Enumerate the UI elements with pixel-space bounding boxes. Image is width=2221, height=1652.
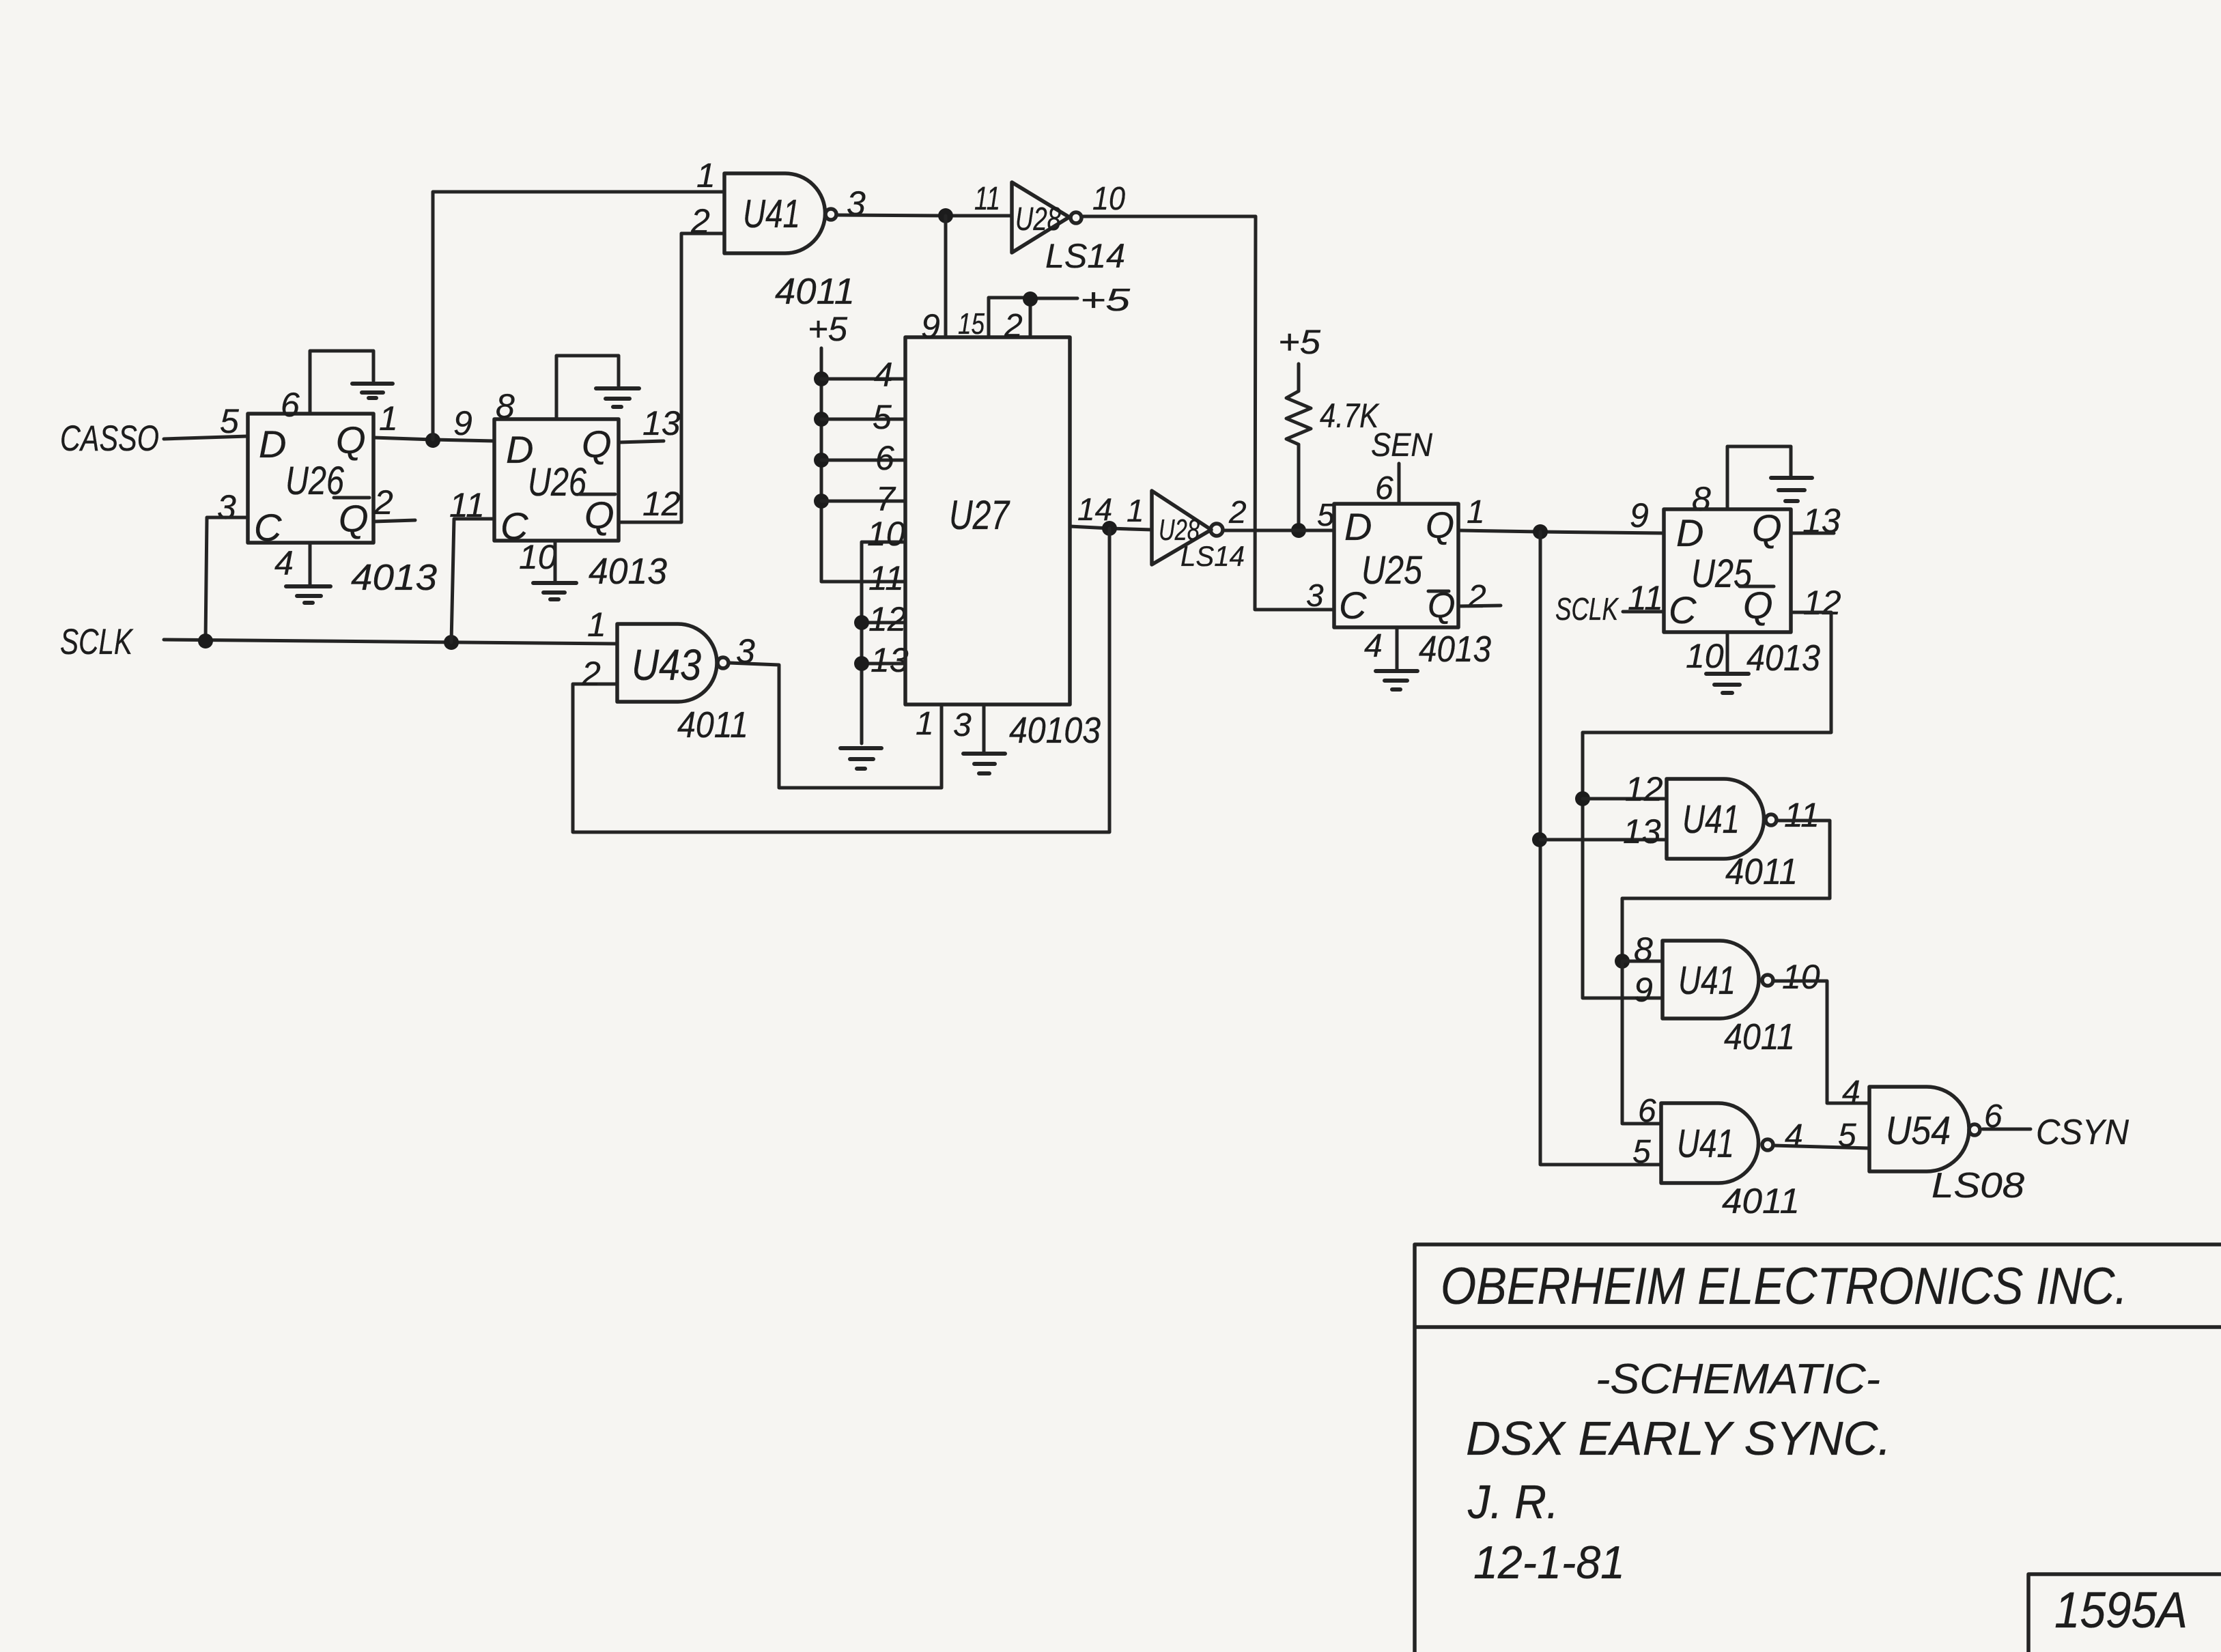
junction U41a out node — [938, 208, 953, 223]
bubble U28b output — [1211, 524, 1223, 536]
wire CASSO to U26a pin 5 — [164, 436, 248, 439]
svg-text:4011: 4011 — [775, 271, 855, 312]
svg-text:40103: 40103 — [1009, 710, 1101, 751]
wire U26b pin 8 to ground — [556, 356, 619, 419]
junction +5 tie — [1023, 291, 1038, 307]
junction bus at pin 5 — [814, 412, 829, 427]
wire U27 pin 1 bottom to U43 output — [729, 663, 942, 788]
wire U27 pin 5 — [821, 418, 905, 421]
svg-text:10: 10 — [1782, 958, 1820, 996]
svg-text:2: 2 — [373, 483, 393, 522]
wire U41b pin 13 input — [1540, 838, 1667, 842]
wire U26a pin 6 to ground — [310, 351, 373, 414]
wire U25b Qbar pin 12 around to gates — [1583, 612, 1831, 998]
bubble U41c output — [1762, 975, 1773, 986]
wire U27 pins 15-2 tie to +5 — [989, 298, 1077, 337]
svg-text:4: 4 — [274, 544, 294, 582]
junction resistor to D wire — [1291, 523, 1306, 538]
wire U41b pin 12 input — [1583, 797, 1667, 801]
and gate U54 — [1869, 1087, 1969, 1171]
inverter U28 (a) — [1012, 182, 1069, 253]
ground (U25b pin 10) — [1706, 674, 1749, 693]
svg-text:U41: U41 — [1682, 797, 1740, 842]
wire U27 pin 12 — [862, 621, 905, 625]
svg-text:13: 13 — [642, 404, 681, 442]
svg-text:U54: U54 — [1886, 1109, 1951, 1153]
svg-text:-SCHEMATIC-: -SCHEMATIC- — [1596, 1356, 1880, 1403]
svg-text:Q: Q — [1752, 507, 1782, 550]
svg-text:4011: 4011 — [1725, 851, 1798, 892]
bubble U41b output — [1766, 814, 1777, 825]
ground (U26a pin 4) — [286, 586, 330, 603]
svg-text:6: 6 — [281, 386, 300, 424]
junction bus at U41b pin 13 — [1532, 832, 1547, 847]
title block border — [1415, 1244, 2221, 1652]
svg-text:U28: U28 — [1015, 201, 1061, 238]
svg-text:D: D — [1676, 511, 1703, 554]
wire U25b pin 8 to ground — [1727, 446, 1791, 509]
svg-text:5: 5 — [873, 398, 892, 436]
wire Q1 bus down to U41d pin 5 — [1540, 532, 1661, 1165]
svg-text:C: C — [1339, 584, 1367, 627]
svg-text:2: 2 — [1004, 308, 1023, 344]
flip-flop U26 (second half) — [494, 419, 619, 541]
svg-text:2: 2 — [1228, 494, 1247, 530]
wire U26b pin 10 down — [554, 541, 557, 581]
drawing number box — [2028, 1574, 2221, 1652]
svg-text:5: 5 — [1632, 1134, 1651, 1170]
wire U27 pin 3 down — [982, 704, 986, 752]
svg-text:13: 13 — [871, 641, 909, 679]
svg-text:1: 1 — [587, 606, 606, 644]
svg-text:1: 1 — [1467, 494, 1485, 530]
svg-text:4011: 4011 — [677, 704, 748, 745]
svg-text:4: 4 — [1842, 1074, 1861, 1111]
svg-text:11: 11 — [1784, 796, 1820, 834]
wire U25b pin 10 down — [1726, 632, 1729, 672]
wire U25a Q pin 1 to U25b pin 9 — [1460, 530, 1664, 533]
wire U26a pin 4 down — [309, 543, 312, 585]
wire U25b Q pin 13 stub — [1791, 532, 1834, 535]
wire junction down to U41d pin 6 — [1622, 961, 1661, 1124]
nand gate U43 — [617, 624, 717, 702]
ground (U27 pin 3) — [963, 754, 1005, 773]
svg-text:+5: +5 — [1278, 323, 1320, 361]
wire U41b out around to U41c pin 8 — [1622, 821, 1830, 961]
svg-text:1595A: 1595A — [2054, 1582, 2188, 1638]
svg-text:D: D — [259, 423, 286, 466]
svg-text:C: C — [254, 506, 282, 549]
svg-text:2: 2 — [581, 655, 601, 693]
svg-text:9: 9 — [453, 404, 472, 442]
wire U27 pin 4 — [821, 378, 905, 381]
wire U54 out to CSYN — [1983, 1128, 2031, 1131]
bubble U43 output — [718, 657, 728, 668]
svg-text:D: D — [1344, 505, 1372, 548]
wire SCLK bus — [164, 640, 617, 644]
resistor 4.7K — [1286, 364, 1311, 530]
svg-text:9: 9 — [1634, 971, 1653, 1009]
ground (U26b pin 10) — [533, 583, 576, 599]
svg-text:12-1-81: 12-1-81 — [1473, 1537, 1625, 1589]
svg-text:Q: Q — [1426, 505, 1454, 546]
wire U28b out to U25a pin 5 — [1223, 529, 1334, 532]
wire node up to U41a pin 1 — [433, 192, 724, 440]
wire U25a Qbar pin 2 stub — [1458, 606, 1501, 606]
svg-text:Q: Q — [339, 497, 369, 540]
wire U27 pin 14 to node — [1070, 526, 1152, 530]
svg-text:4013: 4013 — [1419, 629, 1491, 670]
svg-text:10: 10 — [1092, 181, 1125, 217]
wire U41c out to U54 pin 4 — [1774, 981, 1869, 1103]
svg-text:10: 10 — [1686, 637, 1724, 675]
svg-text:DSX EARLY SYNC.: DSX EARLY SYNC. — [1466, 1412, 1891, 1465]
svg-text:1: 1 — [696, 156, 716, 195]
wire U41c pin 8 input — [1622, 960, 1663, 963]
wire SCLK to U25b pin 11 — [1623, 610, 1664, 614]
svg-text:1: 1 — [916, 706, 934, 742]
flip-flop U25 (first half) — [1334, 504, 1458, 627]
svg-text:5: 5 — [1317, 497, 1335, 532]
flip-flop U25 (second half) — [1664, 509, 1791, 632]
bubble U41d output — [1762, 1139, 1773, 1150]
wire U26b Qbar pin 12 to U41a pin 2 — [619, 233, 724, 522]
junction bus at pin 4 — [814, 371, 829, 386]
svg-text:LS08: LS08 — [1932, 1166, 2024, 1206]
junction rail at pin 13 — [854, 656, 869, 671]
svg-text:SCLK: SCLK — [60, 622, 134, 662]
bubble U41a output — [825, 209, 836, 220]
svg-text:Q: Q — [1743, 584, 1773, 627]
wire U27 pin 13 — [862, 662, 905, 666]
junction Q1 node (U25a) — [1533, 524, 1548, 539]
svg-text:Q: Q — [584, 494, 614, 537]
svg-text:10: 10 — [519, 538, 557, 576]
svg-text:5: 5 — [1838, 1117, 1856, 1154]
svg-text:5: 5 — [220, 402, 239, 440]
svg-text:U41: U41 — [743, 192, 800, 236]
svg-text:8: 8 — [1634, 930, 1653, 969]
svg-text:6: 6 — [1375, 470, 1394, 507]
svg-text:+5: +5 — [1080, 282, 1131, 317]
wire U26b Q pin 13 stub — [619, 441, 664, 442]
svg-text:U43: U43 — [632, 640, 701, 689]
wire U41d out to U54 pin 5 — [1774, 1145, 1869, 1148]
svg-text:1: 1 — [379, 399, 398, 438]
wire U27 pin 7 — [821, 500, 905, 503]
svg-text:12: 12 — [1625, 770, 1663, 808]
svg-text:10: 10 — [867, 515, 905, 553]
svg-text:+5: +5 — [808, 310, 847, 348]
svg-text:2: 2 — [690, 202, 710, 240]
svg-text:U41: U41 — [1677, 1122, 1734, 1166]
ground (U27 pins 12/13 rail) — [840, 748, 881, 769]
svg-text:3: 3 — [736, 632, 755, 670]
svg-text:2: 2 — [1467, 579, 1486, 615]
svg-text:9: 9 — [921, 307, 940, 345]
svg-text:4011: 4011 — [1722, 1182, 1800, 1221]
nand gate U41 (c) — [1663, 941, 1759, 1019]
svg-text:4013: 4013 — [351, 557, 437, 598]
svg-text:4013: 4013 — [1746, 638, 1820, 679]
svg-text:CASSO: CASSO — [60, 418, 159, 459]
junction rail at pin 12 — [854, 615, 869, 630]
svg-text:J. R.: J. R. — [1467, 1475, 1559, 1528]
ground (U25a pin 4) — [1376, 671, 1417, 689]
junction at U41c pin 8 — [1615, 954, 1630, 969]
junction SCLK at U26b — [444, 635, 459, 650]
bubble U28a output — [1071, 212, 1081, 223]
wire feedback node down-left-up to U43 pin 2 — [573, 528, 1109, 832]
wire U26a pin 3 to SCLK — [206, 517, 248, 641]
wire +5 bus to U27 pin 11 — [821, 348, 905, 582]
wire U25a pin 4 down — [1396, 627, 1399, 669]
svg-text:U41: U41 — [1678, 958, 1736, 1003]
junction SCLK at U26a — [198, 633, 213, 649]
svg-text:U27: U27 — [949, 492, 1010, 538]
svg-text:7: 7 — [876, 480, 896, 518]
svg-text:6: 6 — [1638, 1093, 1656, 1129]
svg-text:12: 12 — [642, 485, 681, 523]
svg-text:OBERHEIM ELECTRONICS INC.: OBERHEIM ELECTRONICS INC. — [1441, 1257, 2127, 1315]
svg-text:1: 1 — [1127, 493, 1144, 528]
ground (U26a pin 6) — [352, 384, 393, 398]
svg-text:4011: 4011 — [1724, 1016, 1795, 1057]
wire U27 pin 6 — [821, 459, 905, 462]
svg-text:4: 4 — [874, 356, 893, 394]
svg-text:4013: 4013 — [589, 551, 667, 592]
ground (U26b pin 8) — [596, 388, 639, 407]
svg-text:4: 4 — [1785, 1118, 1803, 1154]
svg-text:SCLK: SCLK — [1555, 591, 1619, 627]
nand gate U41 (a) — [724, 173, 825, 253]
wire U27 pin 10 stub and ground rail — [862, 542, 905, 743]
wire U41a out to U28a in — [837, 215, 1011, 216]
svg-text:3: 3 — [217, 488, 236, 526]
svg-text:12: 12 — [1803, 584, 1841, 622]
svg-text:Q: Q — [336, 418, 366, 461]
svg-text:11: 11 — [974, 181, 1000, 217]
junction pin 14 node — [1102, 521, 1117, 536]
svg-text:LS14: LS14 — [1180, 540, 1245, 572]
ground (U25b pin 8) — [1771, 478, 1812, 501]
flip-flop U26 (first half) — [248, 414, 373, 543]
wire node down to U27 pin 9 — [944, 216, 948, 337]
svg-text:CSYN: CSYN — [2036, 1113, 2129, 1152]
wire U28a out right and down to U25a pin 3 — [1083, 216, 1334, 610]
svg-text:3: 3 — [1306, 578, 1324, 613]
junction bus at pin 7 — [814, 494, 829, 509]
junction Q1 node — [425, 433, 440, 448]
wire SEN to U25a pin 6 — [1398, 464, 1401, 504]
wire U26b pin 11 to SCLK — [451, 519, 494, 642]
svg-text:SEN: SEN — [1371, 427, 1432, 464]
bubble U54 output — [1969, 1124, 1980, 1135]
svg-text:12: 12 — [868, 600, 907, 638]
svg-text:13: 13 — [1623, 812, 1661, 851]
svg-text:11: 11 — [868, 559, 904, 597]
nand gate U41 (d) — [1661, 1103, 1759, 1183]
svg-text:3: 3 — [953, 707, 972, 743]
junction Qbar bus at U41b pin 12 — [1575, 791, 1590, 806]
counter U27 — [905, 337, 1070, 704]
svg-text:U26: U26 — [528, 460, 587, 504]
svg-text:6: 6 — [875, 439, 894, 477]
svg-text:15: 15 — [958, 307, 985, 341]
svg-text:9: 9 — [1630, 496, 1649, 535]
nand gate U41 (b) — [1667, 779, 1764, 859]
junction bus at pin 6 — [814, 453, 829, 468]
svg-text:8: 8 — [496, 387, 515, 425]
svg-text:C: C — [1669, 588, 1697, 631]
svg-text:4: 4 — [1364, 628, 1383, 664]
wire U26a Q pin1 to node, to U26b pin 9 — [373, 438, 494, 441]
svg-text:LS14: LS14 — [1045, 237, 1125, 275]
wire U26a Qbar pin 2 stub — [373, 520, 415, 522]
svg-text:U25: U25 — [1361, 548, 1423, 593]
inverter U28 (b) — [1152, 491, 1211, 565]
svg-text:Q: Q — [582, 423, 612, 466]
